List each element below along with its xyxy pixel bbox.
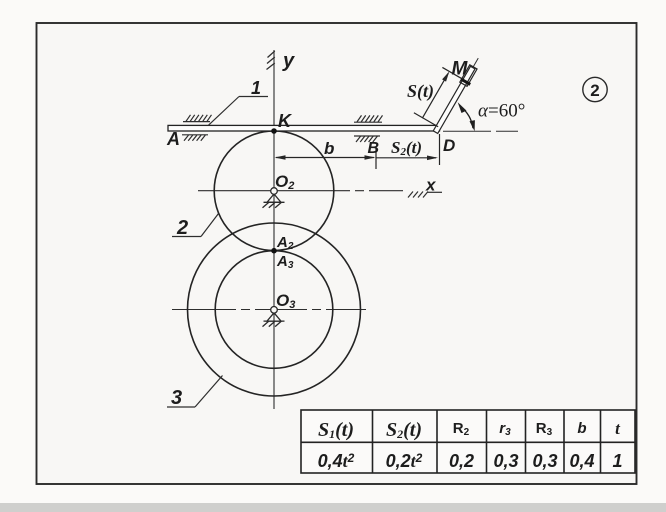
- S2(t) label: [391, 138, 422, 158]
- guide support left upper plate: [183, 115, 212, 122]
- svg-text:S(t): S(t): [407, 81, 434, 102]
- bar AD (rod 1 horizontal part): [168, 125, 440, 131]
- svg-text:1: 1: [612, 451, 622, 471]
- pivot O2: [263, 188, 285, 208]
- dimension b: [275, 155, 376, 160]
- y axis top hatch: [267, 51, 275, 70]
- wheel 3 outer circle R3: [188, 223, 361, 396]
- wheel 2 leader: [172, 214, 219, 237]
- y axis: [273, 50, 275, 409]
- angle alpha arc: [458, 102, 475, 131]
- D label: [443, 136, 455, 155]
- svg-text:3: 3: [171, 387, 182, 409]
- svg-text:0,2: 0,2: [449, 451, 474, 471]
- x axis ground hatch: [408, 192, 442, 198]
- link 1 label: [251, 78, 261, 98]
- svg-text:M: M: [452, 59, 469, 80]
- x axis label: [425, 176, 437, 195]
- O3 label: [276, 291, 295, 311]
- table header R3: [536, 420, 553, 438]
- y axis label: [282, 50, 295, 72]
- svg-text:b: b: [324, 139, 334, 158]
- guide support right lower plate: [354, 136, 380, 142]
- wheel 2: [214, 131, 334, 251]
- rod DM assembly: [411, 44, 484, 135]
- rod DM centerline: [436, 58, 479, 132]
- svg-text:b: b: [577, 420, 586, 437]
- table value R3=0,3: [532, 451, 557, 471]
- scheme number badge: [583, 77, 607, 101]
- table value 0,4t2: [318, 451, 355, 471]
- svg-text:A: A: [166, 129, 180, 149]
- pivot O3: [263, 307, 285, 327]
- point A label: [166, 129, 180, 149]
- svg-text:0,3: 0,3: [493, 451, 518, 471]
- svg-text:α=60°: α=60°: [478, 101, 525, 122]
- table header S1(t): [318, 419, 354, 441]
- svg-text:S1(t): S1(t): [318, 419, 354, 441]
- table value R2=0,2: [449, 451, 474, 471]
- svg-text:D: D: [443, 136, 455, 155]
- table header r3: [499, 420, 511, 438]
- svg-text:S2(t): S2(t): [391, 138, 422, 158]
- table value t=1: [612, 451, 622, 471]
- svg-text:2: 2: [176, 217, 188, 239]
- svg-text:y: y: [282, 50, 295, 72]
- guide support left lower plate: [182, 135, 208, 141]
- wheel 3 centerline: [172, 309, 371, 311]
- D tick: [439, 134, 441, 165]
- wheel 2 label: [176, 217, 188, 239]
- dimension S2(t): [376, 156, 438, 161]
- B label: [368, 140, 380, 157]
- table value 0,2t2: [386, 451, 423, 471]
- S(t) dimension line: [420, 70, 451, 119]
- point K: [271, 128, 277, 134]
- table header b: [577, 420, 586, 437]
- svg-text:K: K: [278, 111, 293, 131]
- alpha=60 label: [478, 101, 525, 122]
- svg-text:2: 2: [590, 81, 599, 100]
- S(t) lower tick: [414, 113, 438, 127]
- svg-text:0,4: 0,4: [569, 451, 594, 471]
- guide support right upper plate: [354, 115, 383, 122]
- wheel 3 leader: [167, 376, 223, 408]
- O2 label: [275, 172, 294, 192]
- rod DM body: [433, 66, 475, 133]
- A2 label: [276, 234, 294, 252]
- table header S2(t): [386, 419, 422, 441]
- b label: [324, 139, 334, 158]
- K label: [278, 111, 293, 131]
- contact point A2/A3: [271, 248, 277, 254]
- svg-text:0,3: 0,3: [532, 451, 557, 471]
- table value b=0,4: [569, 451, 594, 471]
- table value r3=0,3: [493, 451, 518, 471]
- x axis: [198, 190, 403, 192]
- S(t) label: [407, 81, 434, 102]
- table header R2: [453, 420, 470, 438]
- svg-text:x: x: [425, 176, 437, 195]
- M tick: [442, 67, 470, 83]
- wheel 3 inner circle r3: [215, 251, 333, 369]
- wheel 3 label: [171, 387, 182, 409]
- B tick: [375, 147, 377, 169]
- svg-text:B: B: [368, 140, 380, 157]
- svg-text:S2(t): S2(t): [386, 419, 422, 441]
- slider M: [460, 65, 477, 87]
- angle reference line: [443, 130, 527, 132]
- A3 label: [276, 253, 294, 271]
- svg-text:1: 1: [251, 78, 261, 98]
- data table grid: [301, 410, 635, 473]
- M label: [452, 59, 469, 80]
- leader of link 1: [209, 97, 269, 126]
- table header t: [615, 419, 621, 438]
